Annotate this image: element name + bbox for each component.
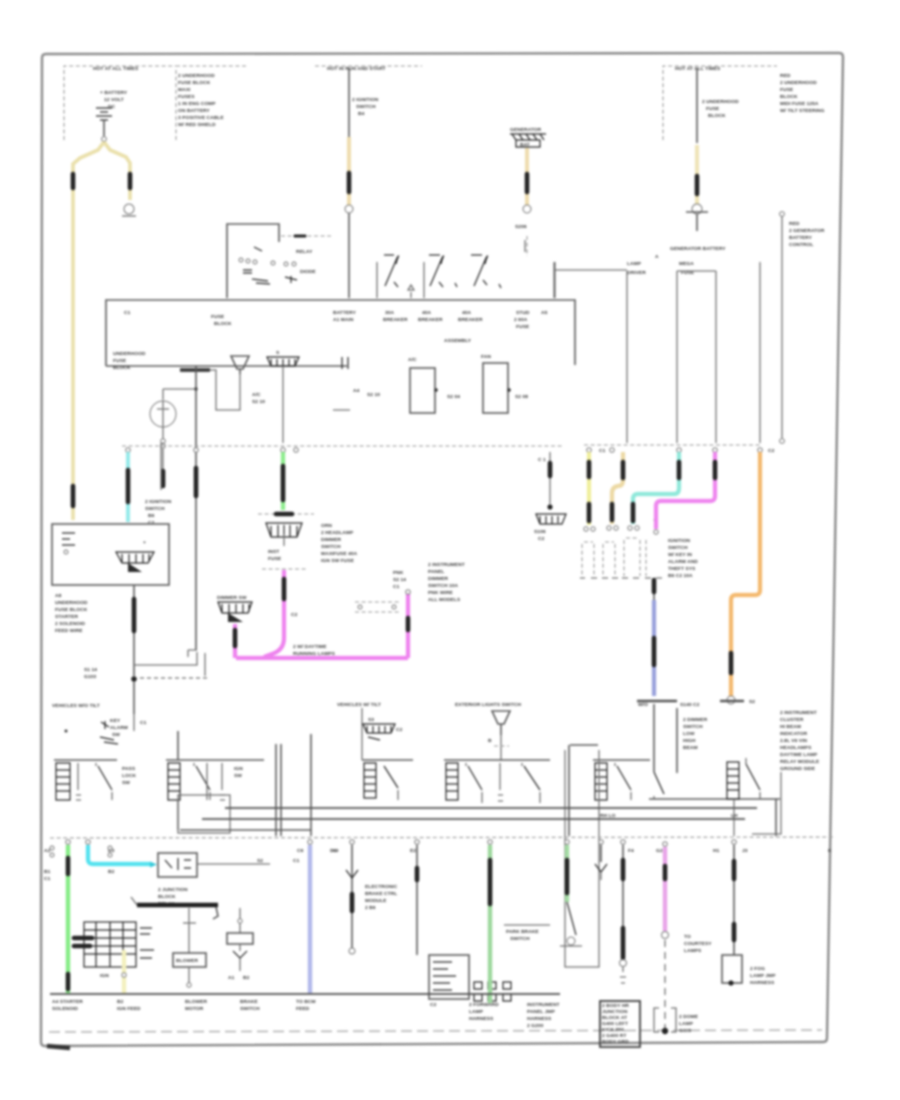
ring terminal G — [124, 204, 134, 214]
page tab mark — [47, 1046, 70, 1048]
svg-text:C1: C1 — [393, 584, 400, 590]
dome lamp connector box — [654, 1008, 699, 1034]
wire periwinkle bottom — [308, 845, 312, 993]
underhood fuse block box — [106, 300, 575, 371]
svg-text:C 1: C 1 — [538, 457, 546, 463]
svg-text:2 IGNITION: 2 IGNITION — [145, 499, 172, 505]
svg-text:KICK PNL: KICK PNL — [602, 1027, 626, 1033]
wire from splice bar down — [195, 366, 197, 650]
svg-text:INDICATOR: INDICATOR — [780, 731, 808, 737]
svg-text:S2 14: S2 14 — [393, 577, 406, 583]
tall frame right — [565, 750, 599, 967]
svg-text:TO: TO — [684, 934, 691, 940]
svg-text:LAMP: LAMP — [679, 1021, 694, 1027]
wire magenta from fuse down — [264, 570, 298, 657]
svg-text:A1: A1 — [228, 975, 235, 981]
svg-text:DRIVER: DRIVER — [627, 270, 646, 276]
splice bar S160 — [180, 368, 210, 372]
svg-text:SWITCH: SWITCH — [321, 544, 341, 550]
svg-text:DIMMER SW: DIMMER SW — [217, 595, 247, 601]
svg-text:H1: H1 — [713, 848, 720, 854]
generator stud E1 — [510, 127, 546, 256]
label all models — [293, 644, 336, 657]
svg-text:FEED: FEED — [296, 1006, 310, 1012]
svg-text:BEAM: BEAM — [683, 745, 698, 751]
svg-text:S3: S3 — [368, 717, 374, 723]
svg-text:C2: C2 — [148, 520, 155, 526]
branch to inline connector — [84, 650, 208, 680]
svg-text:SW: SW — [122, 780, 130, 786]
svg-text:W/ RED SHIELD: W/ RED SHIELD — [178, 122, 216, 128]
fusible link B — [128, 174, 133, 188]
wire fog lamp — [722, 845, 776, 986]
splice column S106 — [534, 452, 566, 542]
svg-text:PANEL: PANEL — [428, 569, 444, 575]
svg-text:GROUND SIDE: GROUND SIDE — [780, 766, 816, 772]
splice crown inside — [116, 552, 154, 563]
svg-text:C2: C2 — [768, 448, 775, 454]
svg-text:B4: B4 — [358, 111, 365, 117]
svg-text:MEGA: MEGA — [679, 261, 694, 267]
svg-text:B1: B1 — [44, 869, 51, 875]
splice crown S3 with riser — [217, 595, 252, 658]
svg-text:FUSE: FUSE — [113, 358, 127, 364]
svg-text:B2: B2 — [243, 975, 250, 981]
generator warning text — [670, 246, 726, 252]
svg-text:C1: C1 — [44, 876, 51, 882]
svg-text:LAMP: LAMP — [469, 1009, 484, 1015]
svg-text:LAMP: LAMP — [627, 261, 642, 267]
svg-text:DIMMER: DIMMER — [321, 537, 342, 543]
lower left frame lines — [178, 734, 311, 836]
svg-text:BLOWER: BLOWER — [176, 958, 198, 964]
wire cyan to horn relay — [88, 845, 157, 875]
svg-text:BLOCK: BLOCK — [158, 894, 176, 900]
svg-text:E2: E2 — [410, 848, 416, 854]
svg-text:CLUSTER: CLUSTER — [780, 717, 804, 723]
wire cyan to ignition switch — [126, 452, 130, 522]
svg-text:TO BCM: TO BCM — [296, 999, 316, 1005]
svg-text:SW: SW — [234, 773, 242, 779]
text block headlamp — [321, 523, 358, 564]
text block right mid — [789, 221, 825, 248]
wire battery positive (yellow) — [73, 142, 136, 520]
svg-text:2 W/ DAYTIME: 2 W/ DAYTIME — [293, 644, 327, 650]
svg-text:BATTERY: BATTERY — [789, 235, 813, 241]
wire right column 1 — [759, 262, 761, 443]
relay K2 column — [227, 908, 253, 981]
svg-text:S206: S206 — [515, 224, 527, 230]
svg-text:C2: C2 — [430, 1002, 437, 1008]
ring terminal — [345, 205, 353, 213]
svg-text:C2: C2 — [396, 727, 403, 733]
svg-text:HARNESS: HARNESS — [527, 1016, 552, 1022]
ground wire branch — [150, 387, 198, 487]
ring terminal — [523, 205, 531, 213]
svg-text:HOT IN RUN AND START: HOT IN RUN AND START — [327, 66, 386, 72]
svg-text:B6: B6 — [148, 513, 155, 519]
svg-text:BRAKE CTRL: BRAKE CTRL — [365, 891, 397, 897]
ground G103 circle — [150, 401, 176, 427]
connector C2 dashed — [258, 513, 314, 515]
svg-text:C1: C1 — [124, 310, 131, 316]
switch SW2 — [166, 731, 264, 800]
heavy splice bar — [131, 897, 218, 919]
switch SW1 — [54, 760, 136, 800]
wire yellow bottom — [122, 950, 126, 993]
fusible link D — [347, 173, 352, 192]
svg-text:FUSE: FUSE — [780, 87, 794, 93]
wire to lamp driver — [555, 262, 627, 443]
svg-text:ALARM: ALARM — [110, 725, 128, 731]
svg-text:J3: J3 — [742, 848, 748, 854]
fuse label — [262, 549, 308, 569]
bottom terminal labels — [52, 999, 437, 1012]
switch SW3 — [362, 760, 413, 800]
svg-text:STUD: STUD — [516, 310, 530, 316]
svg-text:S2: S2 — [749, 699, 755, 705]
svg-text:S2 10: S2 10 — [367, 392, 380, 398]
svg-text:BATTERY: BATTERY — [333, 310, 357, 316]
svg-text:2 SOLENOID: 2 SOLENOID — [55, 621, 86, 627]
svg-text:BLOCK: BLOCK — [780, 94, 798, 100]
svg-text:RED: RED — [789, 221, 800, 227]
svg-text:1 IN ENG COMP: 1 IN ENG COMP — [178, 101, 216, 107]
body connector C200 dashed line — [44, 837, 834, 854]
switch SW4 — [444, 760, 550, 803]
svg-text:30A: 30A — [385, 310, 395, 316]
wire magenta feed 4 — [654, 452, 715, 534]
svg-text:IGN: IGN — [100, 973, 109, 979]
svg-text:JUNCTION: JUNCTION — [602, 1009, 628, 1015]
svg-text:BAT: BAT — [520, 142, 530, 148]
svg-text:LAMP JMP: LAMP JMP — [750, 973, 776, 979]
svg-text:BODY GRD: BODY GRD — [602, 1039, 629, 1045]
svg-text:2.8L V6 VIN: 2.8L V6 VIN — [780, 738, 808, 744]
svg-text:GENERATOR BATTERY: GENERATOR BATTERY — [670, 246, 726, 252]
battery B1 — [96, 90, 128, 141]
svg-text:C6: C6 — [297, 848, 304, 854]
svg-text:BREAKER: BREAKER — [383, 317, 408, 323]
wire right column 2 (to C100) — [780, 212, 785, 444]
wire cyan feed 3 — [628, 452, 679, 530]
svg-text:DC: DC — [108, 104, 116, 110]
wire from ignition box down — [131, 585, 137, 714]
svg-text:IGN: IGN — [234, 766, 243, 772]
relay R2 — [481, 354, 528, 413]
svg-text:BLOCK: BLOCK — [708, 113, 726, 119]
svg-text:HOT AT ALL TIMES: HOT AT ALL TIMES — [93, 66, 139, 72]
svg-text:INSTRUMENT: INSTRUMENT — [527, 1002, 560, 1008]
svg-text:G2: G2 — [656, 848, 663, 854]
battery feed dashed box — [64, 66, 246, 140]
svg-text:2 IGNITION: 2 IGNITION — [352, 97, 379, 103]
svg-text:SWITCH: SWITCH — [356, 104, 376, 110]
svg-text:ELECTRONIC: ELECTRONIC — [365, 884, 398, 890]
svg-text:THEFT SYS: THEFT SYS — [668, 566, 696, 572]
svg-text:LH: LH — [731, 813, 738, 819]
text block below box — [55, 593, 88, 634]
svg-text:FUSES: FUSES — [178, 94, 195, 100]
svg-text:W/ KEY IN: W/ KEY IN — [668, 552, 692, 558]
svg-text:2 JUNCTION: 2 JUNCTION — [158, 887, 188, 893]
bottom bus line — [50, 993, 560, 995]
text block right big — [780, 710, 820, 772]
svg-text:2 FORWARD: 2 FORWARD — [469, 1002, 499, 1008]
svg-text:K9: K9 — [332, 848, 339, 854]
svg-text:S2 04: S2 04 — [447, 394, 460, 400]
svg-text:HOT AT ALL TIMES: HOT AT ALL TIMES — [675, 66, 721, 72]
resistor module — [173, 908, 206, 987]
svg-text:B2: B2 — [117, 999, 124, 1005]
svg-text:VEHICLES W/ TILT: VEHICLES W/ TILT — [337, 702, 381, 708]
svg-text:C1: C1 — [599, 448, 606, 454]
svg-text:FEED WIRE: FEED WIRE — [55, 628, 83, 634]
magenta riser right — [393, 570, 410, 658]
svg-text:G400 LEFT: G400 LEFT — [602, 1021, 628, 1027]
svg-text:2 DOME: 2 DOME — [679, 1014, 699, 1020]
mega fuse label — [627, 254, 695, 276]
svg-text:RED: RED — [780, 73, 791, 79]
svg-text:2 UNDERHOOD: 2 UNDERHOOD — [702, 99, 739, 105]
svg-text:A/C: A/C — [252, 392, 261, 398]
svg-text:BLOCK: BLOCK — [113, 365, 131, 371]
svg-text:KEY: KEY — [110, 718, 121, 724]
svg-text:W/ TILT STEERING: W/ TILT STEERING — [780, 108, 825, 114]
svg-text:INST: INST — [268, 549, 279, 555]
svg-text:FUSE: FUSE — [706, 106, 720, 112]
svg-text:F4: F4 — [628, 848, 634, 854]
svg-text:IGN FEED: IGN FEED — [117, 1006, 141, 1012]
svg-text:2 BODY HR: 2 BODY HR — [602, 1003, 629, 1009]
switch SW5 — [569, 745, 650, 836]
perforation rule — [49, 1030, 822, 1032]
svg-text:2 UNDERHOOD: 2 UNDERHOOD — [178, 73, 215, 79]
svg-text:BLOCK AT: BLOCK AT — [602, 1015, 627, 1021]
wire to stoplamp switch — [332, 845, 358, 954]
svg-text:A: A — [655, 254, 659, 260]
svg-text:40A: 40A — [422, 310, 432, 316]
diode cluster — [65, 714, 147, 744]
svg-text:G305: G305 — [679, 1028, 691, 1034]
mega fuse box — [677, 271, 716, 443]
svg-text:LAMPS: LAMPS — [684, 948, 702, 954]
splice pack SP1 — [267, 350, 299, 372]
wire lamp ground — [620, 845, 627, 983]
svg-text:S2 10: S2 10 — [252, 399, 265, 405]
svg-text:+: + — [143, 541, 146, 546]
circuit breaker CB3 — [471, 255, 501, 288]
svg-text:MODULE: MODULE — [365, 898, 387, 904]
svg-text:HI BEAM: HI BEAM — [780, 724, 801, 730]
svg-text:S2 08: S2 08 — [515, 394, 528, 400]
svg-text:2 60A: 2 60A — [514, 317, 528, 323]
svg-text:C2: C2 — [291, 612, 298, 618]
svg-text:S1 14: S1 14 — [84, 667, 97, 673]
svg-text:A5: A5 — [541, 310, 548, 316]
inline connector dashed box — [355, 602, 399, 612]
theft deterrent module box — [52, 524, 169, 585]
svg-text:MIDI FUSE 125A: MIDI FUSE 125A — [780, 101, 819, 107]
ignition feed wire W2 — [345, 68, 379, 298]
fusible link E — [525, 174, 530, 192]
svg-text:CONTROL: CONTROL — [789, 242, 814, 248]
svg-text:BREAKER: BREAKER — [458, 317, 483, 323]
svg-text:LOCK: LOCK — [122, 773, 136, 779]
stub above bus from splice pack — [282, 372, 284, 443]
connector cavities — [126, 448, 131, 453]
svg-text:SWITCH 10A: SWITCH 10A — [428, 583, 459, 589]
wire yellow feed 1 — [584, 452, 595, 531]
text block ECM — [365, 884, 398, 911]
svg-text:2 INSTRUMENT: 2 INSTRUMENT — [428, 562, 465, 568]
funnel symbol — [231, 356, 249, 374]
svg-text:BRAKE: BRAKE — [240, 999, 258, 1005]
relay cluster box U2 — [227, 224, 331, 298]
wire violet dome — [662, 847, 713, 1028]
svg-text:S140 C2: S140 C2 — [680, 702, 700, 708]
svg-text:K: K — [828, 848, 832, 854]
bus bar A — [333, 357, 380, 410]
svg-text:SWITCH: SWITCH — [510, 936, 530, 942]
svg-text:SWITCH: SWITCH — [668, 545, 688, 551]
svg-text:HEADLAMPS: HEADLAMPS — [780, 745, 812, 751]
svg-text:B2: B2 — [108, 869, 115, 875]
svg-text:MAXI: MAXI — [178, 87, 191, 93]
wire from switch to body C2 (blue) — [637, 520, 700, 708]
svg-text:STARTER: STARTER — [55, 614, 78, 620]
svg-text:FUSE: FUSE — [211, 314, 225, 320]
stub wires into box — [525, 240, 554, 298]
ignition switch text block — [668, 538, 698, 579]
wire green to headlamp switch — [281, 452, 285, 510]
svg-text:SWITCH: SWITCH — [683, 724, 703, 730]
svg-text:W/O: W/O — [638, 702, 648, 708]
relay R1 — [408, 357, 460, 413]
svg-text:+ BATTERY: + BATTERY — [100, 90, 128, 96]
svg-text:B6 C2 10A: B6 C2 10A — [668, 573, 693, 579]
wire to junction block 2 — [416, 845, 418, 955]
svg-text:SWITCH: SWITCH — [145, 506, 165, 512]
svg-text:RUNNING LAMPS: RUNNING LAMPS — [293, 651, 336, 657]
svg-text:PANEL JMP: PANEL JMP — [527, 1009, 556, 1015]
circuit breaker CB2 — [408, 255, 457, 298]
svg-text:BREAKER: BREAKER — [418, 317, 443, 323]
svg-text:HIGH: HIGH — [683, 738, 696, 744]
magenta bus wire — [236, 656, 408, 660]
svg-text:MAXIFUSE 40A: MAXIFUSE 40A — [321, 551, 358, 557]
wire green ABS — [488, 845, 492, 1003]
wire green battery junction — [44, 845, 112, 993]
svg-text:40A: 40A — [462, 310, 472, 316]
text block dimmer right — [428, 562, 465, 603]
svg-text:A8: A8 — [55, 593, 62, 599]
svg-text:FUSE BLOCK: FUSE BLOCK — [178, 80, 211, 86]
switch SW6 — [178, 704, 781, 836]
svg-text:C1: C1 — [140, 720, 147, 726]
svg-text:C1: C1 — [293, 858, 300, 864]
alternator feed wire — [686, 68, 739, 231]
hot at all times dashed box right — [663, 66, 777, 140]
svg-text:C2: C2 — [538, 536, 545, 542]
svg-text:IGNITION: IGNITION — [668, 538, 691, 544]
svg-text:FUSE: FUSE — [516, 324, 530, 330]
ignition switch contact columns — [580, 538, 662, 578]
fusible link A — [71, 174, 76, 188]
splice cluster mid — [362, 708, 403, 760]
wire orange from C2 right — [720, 452, 760, 705]
svg-text:GENERATOR: GENERATOR — [510, 127, 542, 133]
svg-text:G103: G103 — [84, 674, 96, 680]
svg-text:UNDERHOOD: UNDERHOOD — [113, 351, 146, 357]
text block horn — [158, 887, 188, 907]
svg-text:ALARM AND: ALARM AND — [668, 559, 698, 565]
svg-text:ORN: ORN — [321, 523, 332, 529]
funnel exterior lights — [488, 711, 510, 760]
section headers mid row — [52, 702, 648, 709]
ignition switch label — [145, 499, 172, 526]
svg-text:VEHICLES W/O TILT: VEHICLES W/O TILT — [52, 703, 100, 709]
splice crown S2 — [266, 523, 302, 546]
bulkhead connector C100 dashed line — [122, 439, 775, 454]
svg-text:A1 MAIN: A1 MAIN — [333, 317, 354, 323]
svg-text:2 GENERATOR: 2 GENERATOR — [789, 228, 825, 234]
svg-text:PNK: PNK — [393, 570, 404, 576]
svg-text:SWITCH: SWITCH — [240, 1006, 260, 1012]
svg-text:BLOWER: BLOWER — [185, 999, 207, 1005]
svg-text:2 FOG: 2 FOG — [750, 966, 765, 972]
svg-text:COURTESY: COURTESY — [684, 941, 712, 947]
svg-text:FAN: FAN — [481, 354, 491, 360]
wire green park brake — [504, 845, 582, 946]
svg-text:DAYTIME LAMP: DAYTIME LAMP — [780, 752, 818, 758]
svg-text:RH LO: RH LO — [600, 813, 616, 819]
multifunction contact block — [74, 922, 154, 979]
svg-text:2 INSTRUMENT: 2 INSTRUMENT — [780, 710, 817, 716]
svg-text:2 UNDERHOOD: 2 UNDERHOOD — [780, 80, 817, 86]
short stub wire with cap — [160, 443, 162, 490]
svg-text:DIODE: DIODE — [300, 269, 316, 275]
svg-text:SOLENOID: SOLENOID — [52, 1006, 78, 1012]
fusible link F — [695, 176, 700, 194]
svg-text:PASS: PASS — [122, 766, 136, 772]
svg-text:MOTOR: MOTOR — [185, 1006, 204, 1012]
svg-text:A2: A2 — [44, 848, 51, 854]
horn relay box — [158, 853, 300, 877]
U wire to funnel — [210, 356, 265, 410]
wire F4 short — [595, 845, 607, 880]
svg-text:2 DIMMER: 2 DIMMER — [683, 717, 708, 723]
svg-text:RELAY: RELAY — [296, 249, 313, 255]
svg-text:ALL MODELS: ALL MODELS — [428, 597, 461, 603]
svg-text:BLOCK: BLOCK — [214, 321, 232, 327]
svg-text:HARNESS: HARNESS — [750, 980, 775, 986]
ring terminal — [692, 204, 702, 214]
svg-text:S106: S106 — [534, 529, 546, 535]
hot in run dashed header — [315, 66, 422, 72]
svg-text:UNDERHOOD: UNDERHOOD — [55, 600, 88, 606]
svg-text:SW: SW — [112, 732, 120, 738]
svg-text:A4 STARTER: A4 STARTER — [52, 999, 83, 1005]
svg-text:S2: S2 — [257, 858, 263, 864]
svg-text:PNK WIRE: PNK WIRE — [428, 590, 454, 596]
svg-text:DIMMER: DIMMER — [428, 576, 449, 582]
circuit breaker CB1 — [377, 255, 399, 298]
wire tan feed 2 — [607, 452, 623, 530]
svg-text:FUSE BLOCK: FUSE BLOCK — [55, 607, 88, 613]
wire label blob — [194, 468, 199, 496]
svg-text:EXTERIOR LIGHTS SWITCH: EXTERIOR LIGHTS SWITCH — [455, 702, 521, 708]
